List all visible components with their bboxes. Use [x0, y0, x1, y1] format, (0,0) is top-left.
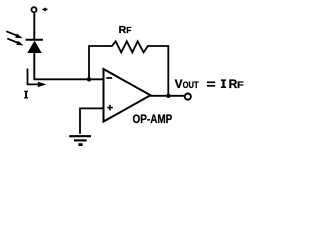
svg-text:VOUT: VOUT — [175, 77, 199, 91]
junction (inverting input node) — [87, 77, 91, 81]
wire (terminal to photodiode cathode) — [33, 13, 35, 40]
wire (op-amp output) — [151, 95, 185, 97]
wire (non-inverting input to ground) — [80, 108, 104, 133]
resistor RF (feedback) with wires — [89, 41, 168, 95]
svg-text:OP-AMP: OP-AMP — [133, 114, 173, 126]
label I (current) — [24, 91, 28, 99]
current arrow I — [28, 69, 47, 88]
output terminal T2 — [185, 94, 191, 100]
terminal T1 (+ supply terminal) — [32, 7, 37, 12]
svg-text:RF: RF — [229, 77, 244, 91]
junction (output node) — [166, 94, 170, 98]
op-amp U1 — [104, 69, 151, 122]
light arrows (illumination) — [6, 31, 23, 45]
label VOUT = I RF — [207, 82, 215, 86]
svg-text:RF: RF — [119, 24, 132, 36]
wire (photodiode anode to inverting input) — [34, 52, 103, 79]
label + (supply polarity) — [42, 8, 47, 11]
photodiode D1 — [26, 40, 43, 53]
ground — [69, 136, 91, 144]
